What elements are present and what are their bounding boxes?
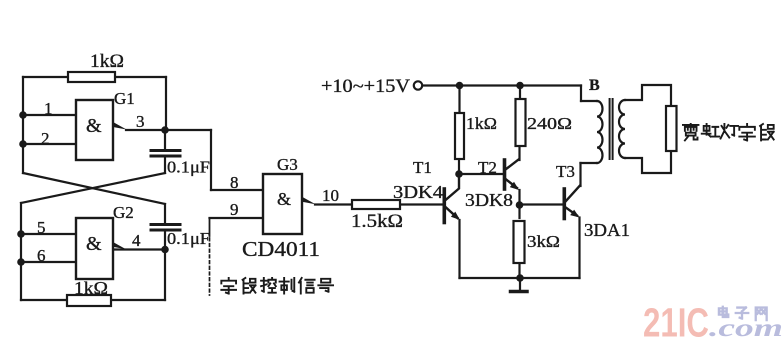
svg-text:5: 5: [37, 218, 46, 237]
svg-text:T2: T2: [478, 158, 497, 177]
svg-text:G1: G1: [114, 89, 135, 108]
svg-text:+10~+15V: +10~+15V: [321, 77, 411, 97]
svg-text:1: 1: [44, 99, 53, 118]
svg-text:G3: G3: [277, 155, 298, 174]
svg-text:3: 3: [136, 112, 145, 131]
svg-text:.com: .com: [709, 315, 783, 342]
svg-text:4: 4: [132, 231, 141, 250]
svg-text:1kΩ: 1kΩ: [90, 51, 124, 72]
svg-text:&: &: [86, 115, 102, 137]
svg-text:1kΩ: 1kΩ: [74, 278, 108, 298]
svg-text:9: 9: [230, 200, 239, 219]
svg-text:T1: T1: [413, 158, 432, 177]
svg-text:0.1μF: 0.1μF: [167, 158, 210, 177]
svg-text:2: 2: [41, 129, 50, 148]
svg-text:3kΩ: 3kΩ: [527, 232, 560, 251]
svg-text:240Ω: 240Ω: [527, 114, 572, 133]
svg-text:21IC: 21IC: [643, 300, 709, 346]
svg-text:8: 8: [230, 173, 239, 192]
svg-text:10: 10: [322, 186, 339, 205]
svg-text:CD4011: CD4011: [242, 237, 320, 261]
svg-text:1kΩ: 1kΩ: [466, 114, 497, 133]
svg-text:3DK4: 3DK4: [393, 182, 443, 202]
svg-text:B: B: [589, 77, 600, 94]
svg-text:&: &: [86, 233, 102, 255]
svg-text:0.1μF: 0.1μF: [167, 229, 210, 248]
svg-text:3DK8: 3DK8: [465, 190, 513, 210]
svg-text:T3: T3: [556, 162, 575, 181]
svg-text:&: &: [277, 189, 291, 209]
svg-text:1.5kΩ: 1.5kΩ: [351, 211, 403, 232]
svg-text:G2: G2: [113, 203, 134, 222]
svg-text:6: 6: [37, 246, 46, 265]
svg-text:3DA1: 3DA1: [584, 220, 630, 240]
